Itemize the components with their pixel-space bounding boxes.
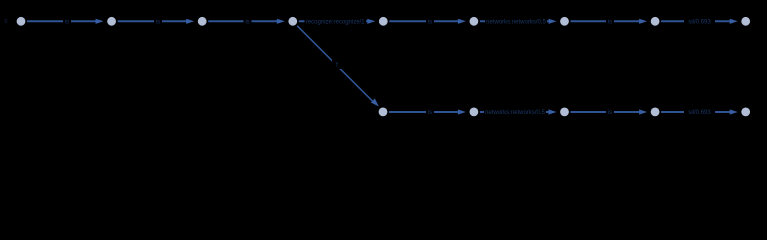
svg-text:0: 0	[5, 19, 8, 25]
svg-text:is: is	[608, 20, 612, 26]
node n2	[107, 17, 116, 26]
wire edge b1-b2	[389, 109, 466, 114]
node label e5	[426, 17, 434, 26]
node n3	[198, 17, 207, 26]
wire edge n5-n6	[389, 19, 466, 24]
node b1	[379, 108, 388, 117]
node n7	[560, 17, 569, 26]
node label be3	[606, 107, 614, 116]
svg-text:networks:networks/0.5: networks:networks/0.5	[486, 20, 546, 26]
node b5	[741, 108, 750, 117]
wire edge n4-n5 long label	[299, 16, 376, 26]
wire edge n8-n9 medium label	[661, 16, 738, 26]
wire diagonal n4-b1	[297, 26, 379, 107]
svg-text:networks:networks/0.5: networks:networks/0.5	[485, 110, 545, 116]
node n9	[741, 17, 750, 26]
node b4	[651, 108, 660, 117]
wire edge n6-n7 long label	[480, 16, 557, 26]
node n5	[379, 17, 388, 26]
node label be1	[426, 107, 434, 116]
svg-text:is: is	[608, 110, 612, 116]
wire edge n2-n3	[118, 19, 195, 24]
node label e2	[154, 17, 162, 26]
node label e7	[606, 17, 614, 26]
node b2	[470, 108, 479, 117]
node label e1	[63, 17, 71, 26]
svg-text:is: is	[156, 20, 160, 26]
svg-text:f: f	[336, 62, 338, 69]
svg-text:is: is	[65, 20, 69, 26]
node n1	[17, 17, 26, 26]
node n6	[470, 17, 479, 26]
svg-text:is: is	[245, 20, 249, 26]
node n8	[651, 17, 660, 26]
svg-text:is: is	[428, 20, 432, 26]
wire edge b4-b5 medium label	[661, 106, 738, 116]
svg-text:recognize:recognize/1: recognize:recognize/1	[306, 20, 365, 26]
node n4	[288, 17, 297, 26]
node label e3	[244, 17, 252, 26]
wire edge n7-n8	[571, 19, 648, 24]
svg-text:sil/0.693: sil/0.693	[688, 110, 711, 116]
wire edge b3-b4	[571, 109, 648, 114]
wire edge n3-n4	[208, 19, 285, 24]
node b3	[560, 108, 569, 117]
wire edge b2-b3 long label	[480, 106, 557, 116]
svg-text:is: is	[428, 110, 432, 116]
svg-text:sil/0.693: sil/0.693	[688, 20, 711, 26]
wire edge n1-n2	[27, 19, 104, 24]
